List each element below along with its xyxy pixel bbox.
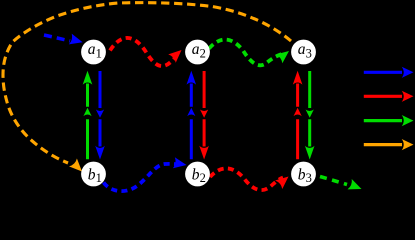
svg-text:a: a (88, 41, 96, 58)
wire red vertical up b3 to a3 (293, 71, 303, 160)
svg-text:1: 1 (96, 46, 102, 60)
svg-text:2: 2 (200, 46, 206, 60)
wire red wavy a1 to a2 (110, 38, 185, 66)
wire blue entry arrow into a1 (44, 34, 84, 48)
node a3 (291, 40, 316, 65)
wire blue vertical down a1 to b1 (95, 71, 105, 160)
node a2 (185, 40, 210, 65)
svg-text:1: 1 (96, 171, 102, 185)
svg-text:b: b (192, 167, 200, 184)
wire blue wavy b1 to b2 (104, 157, 188, 191)
svg-text:3: 3 (306, 171, 312, 185)
legend blue arrow (364, 67, 414, 78)
wire green vertical down a3 to b3 (305, 71, 315, 160)
svg-text:a: a (192, 41, 200, 58)
node b2 (185, 162, 210, 187)
svg-text:2: 2 (200, 171, 206, 185)
wire green wavy a2 to a3 (209, 40, 292, 66)
legend orange arrow (364, 139, 414, 150)
wire red vertical down a2 to b2 (199, 71, 209, 160)
wire green vertical up b1 to a1 (83, 71, 93, 160)
node a1 (81, 40, 106, 65)
node b3 (291, 162, 316, 187)
svg-text:b: b (298, 167, 306, 184)
wire red wavy b2 to b3 (210, 168, 292, 190)
node b1 (81, 162, 106, 187)
svg-text:b: b (88, 167, 96, 184)
legend red arrow (364, 91, 414, 102)
legend green arrow (364, 115, 414, 126)
svg-text:a: a (298, 41, 306, 58)
wire green exit from b3 (320, 177, 364, 195)
svg-text:3: 3 (306, 46, 312, 60)
wire orange big loop a3 to b1 (3, 3, 291, 176)
wire blue vertical up b2 to a2 (187, 71, 197, 160)
